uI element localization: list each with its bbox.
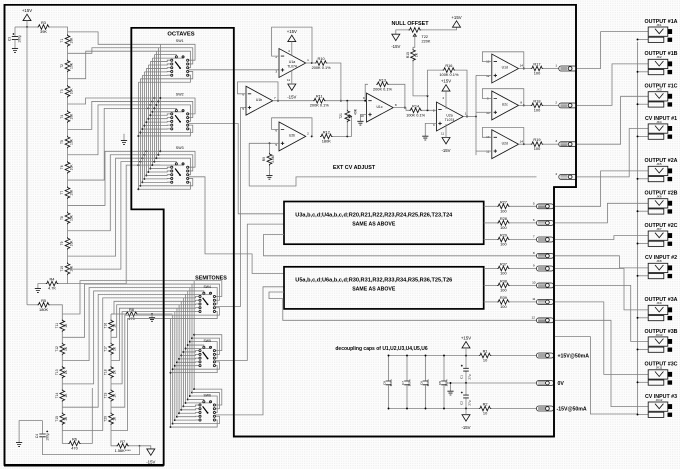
wire switch fan to top contact xyxy=(188,345,204,346)
junction sleeve bus JK8 xyxy=(637,275,639,277)
svg-text:R2: R2 xyxy=(483,402,488,407)
op-amp U1d xyxy=(492,54,519,83)
wire octave bus line xyxy=(155,51,157,158)
svg-text:100: 100 xyxy=(534,146,541,151)
wire connector 6 to jack JK6 xyxy=(554,203,649,223)
wire switch fan top wrap xyxy=(158,101,192,117)
svg-text:9: 9 xyxy=(533,264,535,268)
resistor R1 10 xyxy=(479,353,492,358)
junction U2b output xyxy=(311,135,313,137)
wire switch fan to top contact xyxy=(186,346,211,348)
svg-text:T8: T8 xyxy=(60,216,64,220)
wire JK12 sleeve to ground bus xyxy=(638,414,649,416)
svg-text:R12: R12 xyxy=(323,129,330,134)
wire switch fan top wrap xyxy=(160,44,195,60)
wire SW2 common to channel2 box xyxy=(189,124,284,214)
svg-text:C1: C1 xyxy=(460,375,464,379)
svg-text:U1d: U1d xyxy=(502,66,508,70)
junction U1d output xyxy=(523,68,525,70)
wire CV input 3 to channel 3 box xyxy=(269,292,537,320)
wire +15V rail down to R5 xyxy=(26,27,28,305)
wire R38 to connector xyxy=(510,284,537,286)
svg-text:SW3: SW3 xyxy=(176,146,184,150)
wire switch fan top wrap xyxy=(190,342,217,359)
svg-text:JK1: JK1 xyxy=(656,23,662,27)
svg-text:10K: 10K xyxy=(70,164,74,171)
svg-text:+15V: +15V xyxy=(461,336,471,341)
junction semitone bus at SW5 xyxy=(191,337,193,339)
svg-text:T2: T2 xyxy=(60,64,64,68)
power +15V decoupling xyxy=(462,342,470,348)
switch SW5 xyxy=(199,346,216,366)
wire switch fan top wrap xyxy=(194,335,222,351)
wire ladder segment xyxy=(110,337,112,342)
junction octave bus at SW3 xyxy=(149,168,151,170)
svg-text:T11: T11 xyxy=(55,323,59,329)
junction octave bus at SW3 xyxy=(137,188,139,190)
svg-text:1.56K****: 1.56K**** xyxy=(115,448,132,453)
svg-text:R15: R15 xyxy=(406,52,410,58)
wire connector 5 to jack JK5 xyxy=(554,171,649,206)
svg-text:T13: T13 xyxy=(55,369,59,375)
svg-text:11: 11 xyxy=(441,132,444,136)
wire ladder segment xyxy=(110,384,112,389)
svg-text:6: 6 xyxy=(275,128,277,132)
wire R17 to connector xyxy=(543,68,559,70)
svg-text:+15V@50mA: +15V@50mA xyxy=(558,353,590,359)
junction sleeve bus JK4 xyxy=(637,135,639,137)
wire R8 node to ground xyxy=(151,314,153,318)
svg-text:U2b: U2b xyxy=(289,134,295,138)
wire switch fan to top contact xyxy=(186,292,211,294)
junction U2d output xyxy=(523,143,525,145)
wire connector 11 to jack JK11 xyxy=(554,302,649,375)
wire switch fan direct xyxy=(183,351,199,352)
resistor R11 200K 0.1% xyxy=(273,100,313,102)
wire switch fan direct xyxy=(150,114,170,115)
resistor R9 3.3M xyxy=(268,143,270,153)
svg-text:6: 6 xyxy=(242,93,244,97)
junction decoupling rail xyxy=(406,355,408,357)
junction octave bus at SW2 xyxy=(151,111,153,113)
junction semitone bus at SW6 xyxy=(174,419,176,421)
svg-text:C2: C2 xyxy=(460,401,464,405)
power +15V U1a xyxy=(288,35,296,41)
wire switch fan direct xyxy=(181,409,199,410)
svg-text:1: 1 xyxy=(465,112,467,116)
resistor R27 100 xyxy=(484,205,497,207)
wire ladder segment xyxy=(67,250,69,263)
wire ladder segment xyxy=(67,224,69,237)
wire switch fan direct xyxy=(148,64,170,65)
svg-text:R37: R37 xyxy=(500,262,507,267)
svg-text:U1b: U1b xyxy=(256,98,262,102)
svg-text:10K: 10K xyxy=(70,265,74,272)
wire semitone bus line xyxy=(170,319,172,428)
svg-text:4: 4 xyxy=(555,172,557,176)
wire R7 to -15V xyxy=(140,446,151,449)
wire octave tap 3 to bus xyxy=(68,51,157,78)
svg-text:10K: 10K xyxy=(70,189,74,196)
wire switch fan direct xyxy=(175,311,199,313)
junction semitone bus at SW6 xyxy=(187,399,189,401)
wire connector 8 to jack JK8 xyxy=(554,256,649,268)
wire semitone bus line xyxy=(172,315,174,424)
wire JK3 sleeve to ground bus xyxy=(638,103,649,105)
wire switch fan bottom wrap xyxy=(140,71,192,78)
svg-text:220K: 220K xyxy=(422,40,431,44)
junction sleeve bus JK10 xyxy=(637,348,639,350)
svg-text:JK2: JK2 xyxy=(656,55,662,59)
junction semitone bus at SW5 xyxy=(176,361,178,363)
op-amp U1a TL074 xyxy=(279,49,306,78)
svg-text:10K: 10K xyxy=(70,113,74,120)
svg-text:JK10: JK10 xyxy=(656,333,663,337)
wire CV input 2 to channel 2 box xyxy=(264,235,537,256)
junction semitone bus at SW5 xyxy=(185,348,187,350)
wire switch fan direct xyxy=(142,128,170,130)
svg-text:JK7: JK7 xyxy=(656,227,662,231)
resistor T4 10K xyxy=(65,110,70,123)
wire SW4 common to U1b+ xyxy=(215,108,246,307)
svg-text:T6: T6 xyxy=(60,165,64,169)
wire semitone tap 3 to bus xyxy=(62,288,190,361)
wire semitone bus line xyxy=(176,308,178,417)
svg-text:TL074: TL074 xyxy=(287,64,297,68)
svg-text:12: 12 xyxy=(486,150,490,154)
wire switch fan direct xyxy=(144,70,170,72)
wire T22 left to -15V xyxy=(396,30,409,34)
wire octave bus line xyxy=(137,82,139,189)
wire switch fan direct xyxy=(179,357,199,360)
junction semitone bus at SW5 xyxy=(182,351,184,353)
wire U1b feedback loop xyxy=(238,82,279,101)
wire connector 9 to jack JK9 xyxy=(554,269,649,310)
wire U1a feedback loop xyxy=(272,27,312,63)
wire semitone bus line xyxy=(191,284,193,393)
ground R8 xyxy=(149,318,155,322)
svg-text:R38: R38 xyxy=(500,278,507,283)
svg-text:T5: T5 xyxy=(60,140,64,144)
wire switch fan direct xyxy=(177,415,199,417)
svg-text:NULL OFFSET: NULL OFFSET xyxy=(391,21,429,27)
junction octave tap entry xyxy=(153,97,155,99)
svg-text:TL074: TL074 xyxy=(445,118,455,122)
svg-text:100n: 100n xyxy=(426,379,430,386)
wire switch fan top wrap xyxy=(194,389,222,405)
wire switch fan to top contact xyxy=(152,163,183,165)
resistor R14 100K 0.1% xyxy=(393,108,409,111)
svg-text:180K: 180K xyxy=(39,307,48,312)
wire switch fan to top contact xyxy=(188,399,204,400)
junction semitone bus at SW6 xyxy=(172,423,174,425)
resistor R4 4.7K xyxy=(58,283,67,285)
svg-text:C5: C5 xyxy=(438,381,442,385)
svg-text:SW5: SW5 xyxy=(204,339,211,343)
svg-text:200K 0.1%: 200K 0.1% xyxy=(312,65,332,70)
svg-text:2: 2 xyxy=(555,100,557,104)
junction sleeve bus JK2 xyxy=(637,71,639,73)
junction T21 top xyxy=(346,100,348,102)
resistor R17 100 xyxy=(519,68,531,70)
wire JK8 sleeve to ground bus xyxy=(638,275,649,277)
svg-text:7: 7 xyxy=(274,96,276,100)
svg-text:8: 8 xyxy=(520,101,522,105)
svg-text:R1: R1 xyxy=(483,349,488,354)
svg-text:180K: 180K xyxy=(322,138,331,143)
wire C4 bottom to -15V rail xyxy=(43,437,140,455)
wire R12 to T21 xyxy=(333,116,352,136)
svg-text:14: 14 xyxy=(520,139,524,143)
junction octave bus at SW3 xyxy=(159,150,161,152)
wire octave bus line xyxy=(139,79,141,186)
wire ladder segment xyxy=(67,174,69,187)
wire SW5 common to channel2 box xyxy=(215,224,284,360)
svg-text:1: 1 xyxy=(555,64,557,68)
wire octave bus line xyxy=(147,65,149,172)
wire semitone tap 5 to bus xyxy=(62,294,185,407)
svg-text:8: 8 xyxy=(533,251,535,255)
junction octave bus at SW3 xyxy=(143,178,145,180)
junction sleeve bus JK6 xyxy=(637,210,639,212)
wire ladder segment xyxy=(61,337,63,342)
junction octave bus at SW2 xyxy=(139,132,141,134)
wire switch fan top wrap xyxy=(160,151,195,167)
junction octave bus at SW3 xyxy=(153,161,155,163)
wire U2d + input xyxy=(476,150,492,152)
wire semitone tap 9 to bus xyxy=(111,308,177,360)
svg-text:T3: T3 xyxy=(60,89,64,93)
wire JK5 sleeve to ground bus xyxy=(638,178,649,180)
op-amp U2c xyxy=(492,91,519,120)
junction sleeve bus JK11 xyxy=(637,381,639,383)
junction octave tap entry xyxy=(149,104,151,106)
junction semitone bus at SW6 xyxy=(189,395,191,397)
connector pin 0V xyxy=(537,381,554,386)
svg-text:OCTAVES: OCTAVES xyxy=(167,32,194,38)
resistor T14 1K xyxy=(60,389,65,402)
wire C4 top to ground xyxy=(19,421,42,443)
wire JK9 sleeve to ground bus xyxy=(638,317,649,319)
svg-text:R18: R18 xyxy=(533,98,540,103)
wire semitone tap 6 to bus xyxy=(62,298,183,431)
wire switch fan top wrap xyxy=(156,158,190,175)
wire octave bus line xyxy=(149,62,151,169)
svg-text:U5a,b,c,d;U6a,b,c,d;R30,R31,R3: U5a,b,c,d;U6a,b,c,d;R30,R31,R32,R33,R34,… xyxy=(295,277,452,283)
resistor R19 100 xyxy=(519,143,531,145)
wire switch fan direct xyxy=(177,361,199,363)
wire switch fan direct xyxy=(150,60,170,61)
svg-text:-15V: -15V xyxy=(441,148,450,153)
trimmer T21 40K xyxy=(346,101,348,110)
junction octave bus at SW3 xyxy=(157,154,159,156)
wire semitone bus line xyxy=(193,281,195,390)
svg-text:-15V: -15V xyxy=(287,94,296,99)
wire switch fan to top contact xyxy=(188,291,204,292)
ground 0V rail xyxy=(450,383,452,391)
wire ladder segment xyxy=(67,199,69,212)
junction octave bus at SW2 xyxy=(141,128,143,130)
wire switch fan top wrap xyxy=(160,98,195,114)
svg-text:T20: T20 xyxy=(104,416,108,422)
junction octave bus at SW2 xyxy=(145,121,147,123)
wire octave bus line xyxy=(159,44,161,151)
resistor R15 1K xyxy=(413,36,415,49)
wire U1c+ to ground xyxy=(360,115,366,122)
wire R5 to 1K ladder column 1 top xyxy=(50,305,62,314)
svg-text:-15V: -15V xyxy=(461,425,470,430)
wire switch fan direct xyxy=(142,74,170,76)
junction semitone bus at SW5 xyxy=(172,368,174,370)
svg-text:R10: R10 xyxy=(318,56,326,61)
wire U2b+ node xyxy=(269,142,279,144)
switch SW2 xyxy=(171,110,189,130)
wire semitone tap 10 to bus xyxy=(111,312,175,384)
resistor R8 470 xyxy=(111,313,125,315)
svg-text:-15V: -15V xyxy=(391,44,400,49)
junction octave bus at SW2 xyxy=(155,104,157,106)
svg-text:T22: T22 xyxy=(422,35,429,39)
svg-text:100: 100 xyxy=(534,107,541,112)
resistor R6 470 xyxy=(62,431,68,444)
wire JK11 sleeve to ground bus xyxy=(638,381,649,383)
wire octave tap 5 to bus xyxy=(68,101,161,129)
wire switch fan direct xyxy=(175,419,199,421)
wire semitone bus line xyxy=(189,288,191,397)
junction semitone bus at SW6 xyxy=(176,416,178,418)
resistor T15 1K xyxy=(60,413,65,426)
svg-text:1: 1 xyxy=(307,58,309,62)
junction semitone bus at SW5 xyxy=(193,334,195,336)
svg-text:3: 3 xyxy=(555,139,557,143)
junction octave bus at SW3 xyxy=(155,157,157,159)
ground R9 xyxy=(266,175,272,179)
svg-text:U3a,b,c,d;U4a,b,c,d;R20,R21,R2: U3a,b,c,d;U4a,b,c,d;R20,R21,R22,R23,R24,… xyxy=(295,212,453,218)
svg-text:R11: R11 xyxy=(316,94,323,99)
resistor R38 100 xyxy=(484,284,497,286)
svg-text:+15V: +15V xyxy=(287,29,297,34)
svg-text:200K 0.1%: 200K 0.1% xyxy=(310,103,330,108)
svg-text:R14: R14 xyxy=(412,103,420,108)
wire octave bus line xyxy=(141,75,143,182)
wire switch fan top wrap xyxy=(190,396,217,413)
block channel 2 SAME AS ABOVE xyxy=(284,202,484,245)
svg-text:3: 3 xyxy=(275,69,277,73)
wire semitone tap 4 to bus xyxy=(62,291,187,384)
junction octave bus at SW2 xyxy=(159,97,161,99)
wire semitone bus line xyxy=(178,305,180,414)
svg-text:100K 0.1%: 100K 0.1% xyxy=(406,112,426,117)
power -15V U2a xyxy=(442,138,450,144)
resistor T7 10K xyxy=(65,186,70,199)
svg-text:C8: C8 xyxy=(382,381,386,385)
resistor T3 10K xyxy=(65,85,70,98)
svg-text:T9: T9 xyxy=(60,241,64,245)
svg-text:SW6: SW6 xyxy=(204,393,211,397)
svg-text:decoupling caps of U1,U2,U3,U4: decoupling caps of U1,U2,U3,U4,U5,U6 xyxy=(335,346,427,352)
wire octave tap 7 to bus xyxy=(68,108,161,180)
wire switch fan bottom wrap xyxy=(171,366,218,373)
junction R12/T21 node xyxy=(346,135,348,137)
wire R16 to U2a output xyxy=(455,70,467,116)
wire +15V to rail xyxy=(26,21,28,27)
wire switch fan bottom wrap xyxy=(171,312,218,319)
svg-text:40K: 40K xyxy=(354,108,358,115)
wire ext CV input to U2b+ xyxy=(249,143,536,186)
svg-text:100n: 100n xyxy=(445,379,449,386)
junction R15/R16 node xyxy=(427,95,429,97)
wire connector 1 to jack JK1 xyxy=(577,32,649,69)
junction octave bus at SW3 xyxy=(151,164,153,166)
op-amp U2b xyxy=(279,122,306,151)
wire switch fan direct xyxy=(142,181,170,183)
junction octave tap entry xyxy=(137,164,139,166)
wire switch fan bottom wrap xyxy=(171,420,218,427)
wire JK4 sleeve to ground bus xyxy=(638,135,649,137)
resistor R12 180K xyxy=(312,135,314,137)
svg-text:T15: T15 xyxy=(55,416,59,422)
svg-text:2: 2 xyxy=(307,132,309,136)
switch SW3 xyxy=(171,163,189,183)
capacitor C2 27u xyxy=(465,383,467,395)
svg-text:10K: 10K xyxy=(70,37,74,44)
junction sleeve bus JK5 xyxy=(637,178,639,180)
wire U1d feedback loop xyxy=(482,52,523,69)
block channel 3 SAME AS ABOVE xyxy=(284,267,484,309)
resistor R10 200K 0.1% xyxy=(306,62,315,64)
junction semitone bus at SW5 xyxy=(189,341,191,343)
wire switch fan direct xyxy=(150,167,170,168)
svg-text:4.7K: 4.7K xyxy=(48,286,56,291)
resistor R7 1.56K xyxy=(111,431,116,446)
svg-text:9: 9 xyxy=(363,96,365,100)
wire switch fan direct xyxy=(181,354,199,355)
svg-text:R6: R6 xyxy=(72,436,77,441)
svg-text:10K: 10K xyxy=(70,214,74,221)
resistor R39 100 xyxy=(484,301,497,303)
junction semitone bus at SW5 xyxy=(170,372,172,374)
svg-text:12: 12 xyxy=(486,74,490,78)
svg-text:200K 0.1%: 200K 0.1% xyxy=(373,86,393,91)
resistor T6 10K xyxy=(65,161,70,174)
svg-text:T1: T1 xyxy=(60,39,64,43)
wire octave bus line xyxy=(151,58,153,165)
switch SW4 xyxy=(199,292,216,312)
junction U1b output xyxy=(277,100,279,102)
ground near octave bus xyxy=(123,134,125,141)
wire connector 12 to jack JK12 xyxy=(554,320,649,406)
junction buffer input riser xyxy=(475,116,477,118)
svg-text:R13: R13 xyxy=(379,77,386,82)
svg-text:5: 5 xyxy=(533,201,535,205)
capacitor C6 100n xyxy=(425,356,427,381)
wire connector 4 to jack JK4 xyxy=(577,129,649,177)
svg-text:JK12: JK12 xyxy=(656,398,663,402)
resistor T9 10K xyxy=(65,237,70,250)
svg-text:JK3: JK3 xyxy=(656,88,662,92)
svg-text:U2c: U2c xyxy=(502,103,508,107)
svg-text:R9: R9 xyxy=(262,157,266,161)
power -15V decoupling xyxy=(462,415,470,421)
wire T22 right to +15V xyxy=(421,27,456,30)
wire switch fan to top contact xyxy=(154,162,176,163)
power +15V null offset xyxy=(453,21,461,27)
svg-text:100: 100 xyxy=(500,225,507,230)
junction semitone bus at SW6 xyxy=(180,409,182,411)
wire switch fan direct xyxy=(146,120,170,123)
wire ladder bottom to R4 node xyxy=(67,275,69,284)
svg-text:2: 2 xyxy=(275,55,277,59)
